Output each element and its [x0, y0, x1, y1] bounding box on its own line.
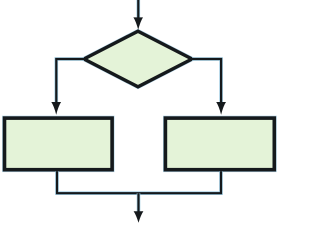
- wire: top entry into decision diamond: [133, 0, 143, 30]
- wire: diamond right branch to right box: [192, 59, 226, 115]
- wire: diamond left branch to left box: [51, 59, 84, 115]
- node: decision diamond: [84, 31, 192, 87]
- wire: merge from both boxes to bottom bar: [57, 171, 221, 193]
- node: left process box: [5, 118, 113, 170]
- node: right process box: [165, 118, 274, 170]
- wire: bottom exit arrow: [134, 193, 144, 223]
